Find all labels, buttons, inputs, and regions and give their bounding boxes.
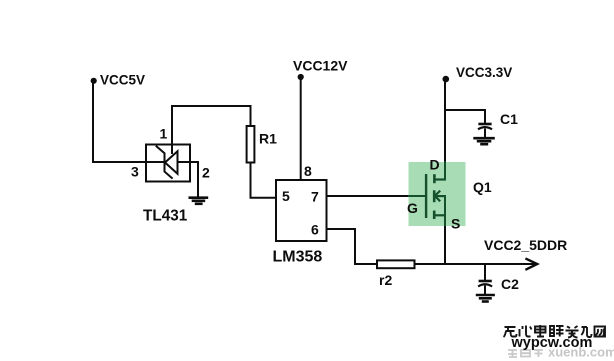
Q1 drain stub: [434, 178, 447, 180]
wire Q1 gate lead inside highlight: [408, 195, 426, 197]
wire R1 top lead: [250, 105, 252, 126]
ground under TL431 pin2: [189, 198, 209, 204]
svg-text:VCC12V: VCC12V: [293, 58, 348, 74]
Q1 source stub: [434, 214, 447, 216]
output arrowhead: [525, 258, 537, 269]
watermark site name 无忧电脑学习网 (drawn strokes): [504, 325, 606, 338]
wire output node to C2: [484, 264, 486, 281]
svg-text:S: S: [451, 216, 460, 232]
wire Q1 body/source down inside box: [444, 196, 446, 226]
wire Q1 source to output node: [444, 226, 446, 265]
svg-text:TL431: TL431: [143, 208, 188, 225]
node VCC3.3V dot: [443, 76, 450, 83]
svg-text:VCC2_5DDR: VCC2_5DDR: [484, 237, 567, 253]
wire VCC12V to LM358 pin8: [300, 77, 302, 180]
wire TL431 pin1 top to R1 top: [171, 105, 251, 107]
wire VCC3.3V down to Q1 drain: [444, 79, 446, 180]
svg-text:3: 3: [131, 164, 139, 180]
op-amp LM358 box: [276, 180, 327, 241]
capacitor C1: [478, 124, 492, 138]
ground under C1: [473, 138, 495, 144]
resistor r2: [377, 260, 415, 268]
wire r2 to output arrow: [415, 263, 536, 265]
svg-text:1: 1: [160, 126, 168, 142]
wire LM358 pin6 to r2: [327, 229, 378, 264]
svg-text:7: 7: [311, 189, 319, 205]
wire Q1 drain lead inside highlight: [444, 162, 446, 180]
svg-text:VCC5V: VCC5V: [100, 73, 145, 88]
Q1 body stub: [435, 195, 447, 197]
svg-text:D: D: [430, 157, 440, 173]
TL431 cathode Z-bar: [156, 146, 173, 179]
svg-text:6: 6: [311, 222, 319, 238]
svg-text:wypcw.com: wypcw.com: [511, 335, 593, 351]
Q1 body bar: [433, 190, 436, 202]
node VCC5V dot: [91, 78, 97, 84]
svg-text:VCC3.3V: VCC3.3V: [456, 65, 512, 80]
wire TL431 pin2 to ground: [190, 162, 198, 198]
svg-text:R1: R1: [259, 131, 277, 147]
svg-text:2: 2: [202, 165, 210, 181]
Q1 body arrow: [435, 191, 440, 202]
wire R1 bottom lead to LM358 pin5: [251, 163, 277, 198]
TL431 pin 1 wire (reference) from top wire into box: [171, 105, 173, 154]
TL431 internal anode lead (pin3 side): [146, 161, 164, 163]
svg-text:8: 8: [304, 163, 312, 179]
svg-text:LM358: LM358: [273, 249, 323, 266]
svg-text:C2: C2: [501, 276, 519, 292]
watermark gray chinese glyphs (faint): [508, 350, 543, 357]
svg-text:G: G: [407, 200, 418, 216]
Q1 drain contact tick: [433, 174, 436, 183]
TL431 triangle: [165, 151, 178, 173]
capacitor C2: [478, 281, 492, 295]
svg-text:r2: r2: [379, 272, 392, 288]
TL431 U? box: [146, 145, 190, 182]
node VCC12V dot: [298, 74, 304, 80]
svg-text:C1: C1: [500, 111, 518, 127]
svg-text:Q1: Q1: [473, 179, 492, 195]
wire LM358 pin7 to Q1 gate: [327, 195, 427, 197]
transistor Q1 gate bar: [425, 174, 427, 218]
wire VCC5V down to TL431 pin3 row: [92, 81, 94, 163]
wire VCC5V to TL431 pin 3: [92, 161, 147, 163]
resistor R1: [247, 126, 255, 163]
svg-text:5: 5: [282, 188, 290, 204]
TL431 internal cathode lead (pin2 side): [178, 161, 191, 163]
Q1 green highlight box: [409, 162, 466, 226]
wire branch to C1: [445, 110, 485, 124]
Q1 source contact tick: [433, 211, 436, 220]
ground under C2: [476, 295, 495, 302]
